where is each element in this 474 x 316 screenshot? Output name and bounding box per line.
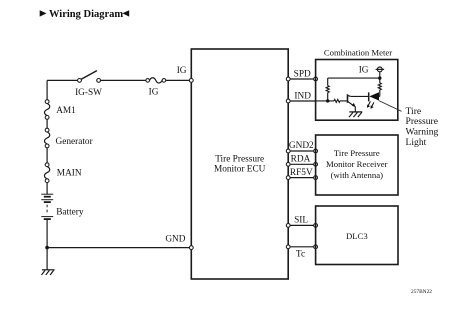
svg-text:SPD: SPD — [294, 69, 311, 79]
svg-text:Generator: Generator — [56, 137, 94, 147]
svg-text:GND2: GND2 — [289, 141, 314, 151]
svg-text:IG: IG — [359, 66, 369, 76]
svg-text:RDA: RDA — [291, 155, 311, 165]
svg-text:Monitor Receiver: Monitor Receiver — [326, 159, 388, 169]
svg-text:Combination Meter: Combination Meter — [324, 47, 392, 57]
svg-text:(with Antenna): (with Antenna) — [331, 170, 383, 180]
svg-text:Tc: Tc — [296, 250, 305, 260]
svg-text:Tire Pressure: Tire Pressure — [334, 148, 380, 158]
svg-text:MAIN: MAIN — [57, 169, 82, 179]
svg-text:SIL: SIL — [294, 216, 308, 226]
svg-text:Wiring Diagram: Wiring Diagram — [49, 9, 123, 20]
svg-text:Tire: Tire — [406, 106, 422, 117]
svg-text:IND: IND — [294, 91, 311, 101]
svg-text:RF5V: RF5V — [290, 168, 313, 178]
svg-text:257BN22: 257BN22 — [411, 289, 432, 295]
svg-text:AM1: AM1 — [56, 106, 76, 116]
svg-text:Light: Light — [406, 137, 427, 148]
svg-text:GND: GND — [165, 235, 185, 245]
svg-text:Tire Pressure: Tire Pressure — [215, 155, 264, 165]
svg-text:Monitor ECU: Monitor ECU — [214, 165, 266, 175]
svg-text:Battery: Battery — [56, 207, 84, 217]
svg-text:IG-SW: IG-SW — [75, 88, 102, 98]
svg-text:DLC3: DLC3 — [346, 231, 368, 241]
svg-text:IG: IG — [177, 66, 187, 76]
svg-text:IG: IG — [149, 88, 159, 98]
